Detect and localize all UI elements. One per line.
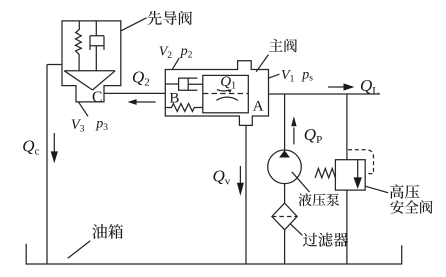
svg-text:Q1: Q1 <box>220 74 236 92</box>
label port B <box>169 91 179 107</box>
label filter (guo lv qi) <box>303 233 348 247</box>
pilot valve damper piston <box>90 21 104 71</box>
label Qc <box>22 136 39 157</box>
svg-text:C: C <box>92 89 102 106</box>
arrow Qv (flow down) <box>237 166 244 196</box>
orifice dashed line <box>203 93 249 95</box>
label oil tank (you xiang) <box>92 224 123 239</box>
svg-text:V2: V2 <box>159 44 173 60</box>
svg-text:QL: QL <box>360 76 379 97</box>
label main valve (zhu fa) <box>269 39 297 53</box>
svg-text:p2: p2 <box>180 44 193 60</box>
label port A <box>253 98 264 114</box>
wire A port to load <box>269 93 381 95</box>
svg-text:V3: V3 <box>71 117 85 134</box>
wire relief valve to tank <box>346 190 348 264</box>
svg-text:Qv: Qv <box>213 167 231 188</box>
leader line filter label <box>290 223 302 235</box>
label high pressure (gao ya) <box>390 184 420 198</box>
leader line tank label <box>68 241 91 258</box>
arrow QL (flow right) <box>328 83 354 90</box>
label Qv <box>213 167 231 188</box>
wire filter to tank <box>284 230 286 264</box>
main valve inner spool box <box>203 75 249 112</box>
leader line pilot valve label <box>121 18 147 31</box>
svg-text:Q2: Q2 <box>132 67 150 88</box>
arrow QP (flow up) <box>291 116 296 144</box>
svg-text:p3: p3 <box>95 116 108 132</box>
wire to relief valve <box>346 94 348 160</box>
main valve spring <box>165 104 203 112</box>
leader line V1 label <box>268 74 280 78</box>
wire tank-return left branch (Qc line) <box>47 65 62 265</box>
arrow Qc (flow down) <box>51 133 58 163</box>
relief valve pilot dashed line <box>348 150 374 174</box>
label V2 p2 <box>159 44 193 61</box>
label V3 p3 <box>71 116 108 134</box>
label QL <box>360 76 379 97</box>
label Q2 <box>132 67 150 88</box>
pilot valve spring <box>75 21 81 71</box>
leader line pump label <box>292 172 310 192</box>
orifice seat curve <box>216 97 237 100</box>
wire C to B port <box>104 92 165 94</box>
pilot valve poppet cone <box>64 71 115 90</box>
pump circle <box>268 150 302 184</box>
label Q1 <box>220 74 236 92</box>
svg-text:A: A <box>253 98 264 114</box>
tank line <box>26 244 402 264</box>
label hydraulic pump (ye ya beng) <box>299 193 340 206</box>
filter diamond <box>272 203 297 230</box>
leader line main valve label <box>256 55 268 72</box>
svg-text:QP: QP <box>304 125 322 146</box>
arrow Q2 (flow C to B) <box>128 99 156 105</box>
main valve V1 body outline <box>165 61 268 126</box>
label QP <box>304 125 322 146</box>
svg-text:B: B <box>169 91 179 107</box>
label pilot valve (xian dao fa) <box>148 11 193 25</box>
relief valve flow arrow <box>354 160 362 189</box>
main valve damper piston <box>165 78 203 90</box>
pump triangle <box>279 150 290 157</box>
svg-text:Qc: Qc <box>22 136 39 157</box>
pilot valve V3 body outline <box>62 21 121 102</box>
svg-text:V1: V1 <box>281 68 295 84</box>
label port C <box>92 89 102 106</box>
wire pump to filter <box>284 184 286 204</box>
label V1 ps <box>281 67 313 84</box>
leader line V3 p3 label <box>79 102 88 116</box>
relief valve spring <box>315 168 335 178</box>
Q1 flow arrow <box>217 89 232 93</box>
wire to pump <box>284 94 286 150</box>
svg-text:ps: ps <box>301 67 313 83</box>
wire Qv main valve drain <box>245 125 247 264</box>
leader line V2 p2 label <box>172 58 179 70</box>
label safety valve (an quan fa) <box>391 200 433 213</box>
leader line relief valve label <box>365 186 388 193</box>
relief valve box <box>335 160 365 190</box>
filter dashed element <box>272 216 297 218</box>
